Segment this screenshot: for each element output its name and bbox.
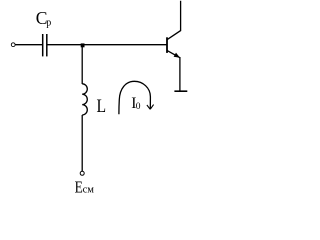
svg-text:р: р <box>46 18 51 29</box>
svg-text:L: L <box>97 97 107 117</box>
svg-text:0: 0 <box>136 102 141 112</box>
svg-text:E: E <box>75 177 83 196</box>
svg-text:см: см <box>83 185 95 196</box>
